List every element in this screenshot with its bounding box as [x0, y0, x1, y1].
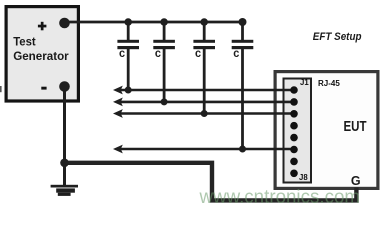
svg-text:EUT: EUT — [344, 119, 367, 135]
svg-text:c: c — [233, 46, 239, 60]
svg-text:c: c — [195, 46, 201, 60]
svg-text:J8: J8 — [299, 173, 308, 182]
svg-text:c: c — [119, 46, 125, 60]
svg-text:c: c — [155, 46, 161, 60]
svg-text:J1: J1 — [300, 78, 309, 87]
svg-text:Test: Test — [13, 35, 36, 49]
svg-text:RJ-45: RJ-45 — [318, 79, 340, 88]
svg-text:www.cntronics.com: www.cntronics.com — [199, 186, 360, 208]
svg-text:Generator: Generator — [13, 49, 69, 63]
svg-text:EFT Setup: EFT Setup — [313, 31, 362, 43]
